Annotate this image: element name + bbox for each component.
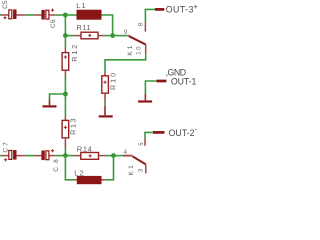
wire: R10 to ground <box>104 103 106 106</box>
svg-text:OUT-3: OUT-3 <box>166 5 194 15</box>
ground left of R13 <box>43 100 57 108</box>
wire: C7 to C8 <box>26 155 34 157</box>
resistor R12 <box>62 45 79 76</box>
net flag OUT-3 <box>155 8 164 11</box>
resistor R11 <box>75 23 104 39</box>
wire: node C down to R12 <box>64 36 66 48</box>
svg-text:L1: L1 <box>76 1 86 10</box>
wire: left edge stub to C7 <box>0 155 2 157</box>
node A junction <box>63 13 68 18</box>
svg-text:C5: C5 <box>2 0 9 9</box>
wire: R11 to node B <box>104 35 113 37</box>
capacitor C7 <box>2 142 26 162</box>
wire: node D to left ground <box>50 94 66 100</box>
resistor R10 <box>102 73 118 103</box>
capacitor C6 <box>34 9 57 29</box>
wire: L2 to node F <box>105 156 113 180</box>
wire: K1 pin 8 up to OUT-3 <box>145 9 155 22</box>
svg-text:C6: C6 <box>50 19 57 28</box>
inductor L1 <box>76 1 101 20</box>
net flag OUT-1 <box>157 80 167 83</box>
node C junction <box>63 33 68 38</box>
resistor R13 <box>62 117 77 150</box>
wire: node C to R11 <box>65 35 74 37</box>
label OUT-2 - <box>169 127 198 138</box>
svg-text:R10: R10 <box>109 73 118 90</box>
wire: left edge stub to C5 <box>0 14 2 16</box>
node B junction <box>110 33 115 38</box>
wire: node E down to L2 <box>65 156 73 180</box>
label OUT-3 + <box>166 2 199 15</box>
net flag OUT-2 <box>153 131 165 134</box>
wire: node D down to R13 <box>64 94 66 117</box>
wire: C5 to C6 <box>26 14 34 16</box>
svg-text:R11: R11 <box>77 23 91 32</box>
ground under R10 <box>99 106 113 118</box>
ground under OUT-1 <box>138 94 152 103</box>
wire: K1 pin 10 to R10 <box>105 54 146 72</box>
resistor R14 <box>75 145 105 160</box>
wire: node A down to node C <box>64 15 66 36</box>
capacitor C8 <box>34 149 60 172</box>
wire: node A to L1 <box>65 14 76 16</box>
wire: R12 to node D <box>64 76 66 94</box>
capacitor C5 <box>2 0 26 19</box>
inductor L2 <box>73 169 105 185</box>
svg-text:R14: R14 <box>77 145 92 154</box>
node D junction <box>63 92 68 97</box>
svg-text:L2: L2 <box>74 169 84 178</box>
node F junction <box>111 153 116 158</box>
wire: R13 to node E <box>64 149 66 155</box>
wire: C6 to node A <box>55 14 65 16</box>
node E junction <box>63 153 68 158</box>
svg-text:10: 10 <box>137 46 143 55</box>
svg-text:OUT-1: OUT-1 <box>171 76 197 86</box>
wire: R14 to node F <box>105 155 114 157</box>
svg-text:OUT-2: OUT-2 <box>169 128 195 138</box>
switch K1 gang A (pins 9,8,10) <box>124 22 146 56</box>
svg-text:R13: R13 <box>68 118 77 135</box>
wire: L1 right to node B <box>102 15 113 36</box>
switch K1 gang B (pins 4,5,3) <box>123 139 146 176</box>
wire: K1 pin 5 up to OUT-2 <box>145 132 153 138</box>
svg-text:R12: R12 <box>70 45 79 62</box>
wire: node B to K1 pin 9 <box>113 35 128 37</box>
svg-text:+: + <box>193 2 198 11</box>
wire: C8 to node E <box>55 155 65 157</box>
wire: node F to K1 pin 4 <box>114 155 124 157</box>
wire: node E to R14 <box>65 155 74 157</box>
wire: GND net from ground up to OUT-1 <box>145 81 156 94</box>
